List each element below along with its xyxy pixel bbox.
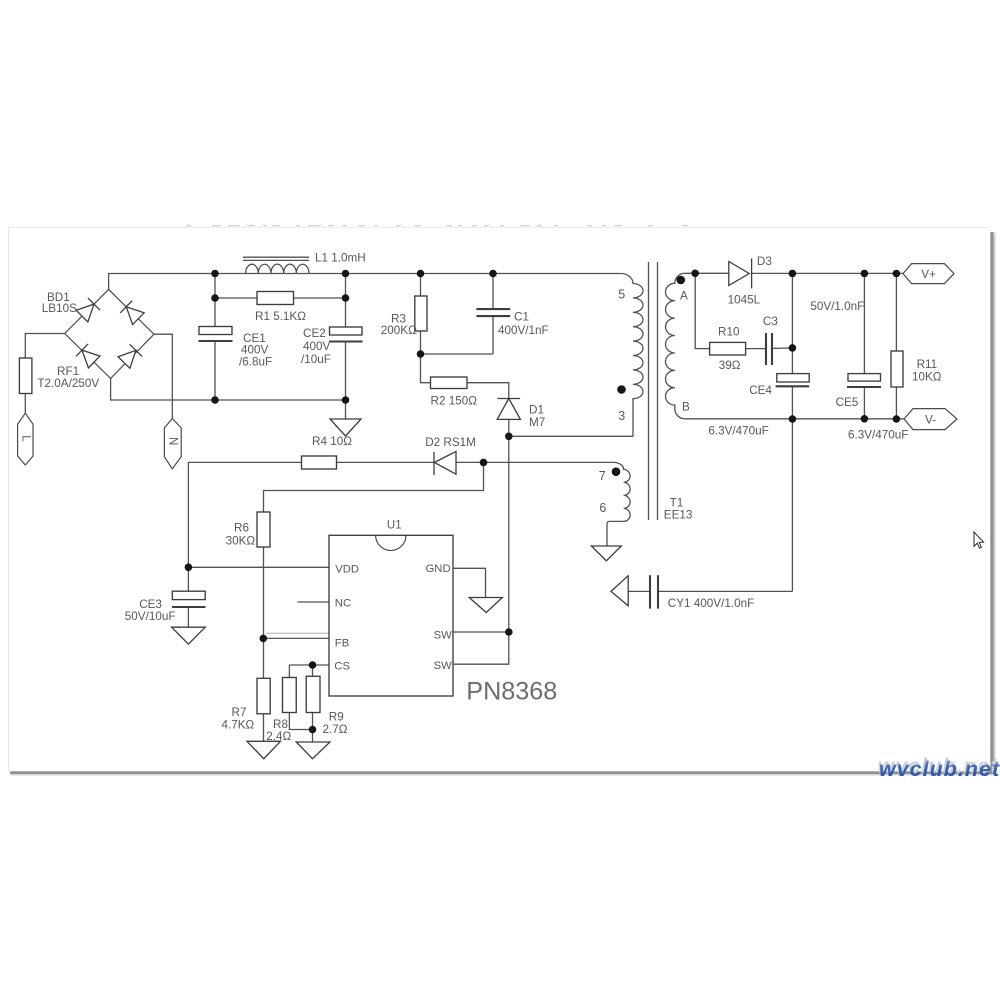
svg-text:PN8368: PN8368 xyxy=(466,678,557,706)
svg-text:EE13: EE13 xyxy=(664,509,693,522)
svg-text:1045L: 1045L xyxy=(728,293,761,306)
svg-text:R6: R6 xyxy=(234,521,249,534)
svg-text:200KΩ: 200KΩ xyxy=(381,324,417,337)
svg-text:D3: D3 xyxy=(757,255,772,268)
svg-text:wvclub.net: wvclub.net xyxy=(879,757,1000,781)
svg-text:L1 1.0mH: L1 1.0mH xyxy=(315,252,366,265)
svg-text:2.7Ω: 2.7Ω xyxy=(323,723,348,736)
svg-text:V+: V+ xyxy=(921,268,936,281)
svg-text:R9: R9 xyxy=(329,711,344,724)
svg-text:U1: U1 xyxy=(387,519,402,531)
svg-text:T2.0A/250V: T2.0A/250V xyxy=(37,377,99,390)
svg-text:D2 RS1M: D2 RS1M xyxy=(425,436,476,449)
svg-text:10KΩ: 10KΩ xyxy=(912,371,942,384)
svg-text:6.3V/470uF: 6.3V/470uF xyxy=(708,424,768,437)
svg-text:R2 150Ω: R2 150Ω xyxy=(431,395,478,408)
svg-text:R11: R11 xyxy=(917,358,938,371)
svg-text:M7: M7 xyxy=(529,416,545,429)
svg-text:400V: 400V xyxy=(303,340,331,353)
svg-text:V-: V- xyxy=(925,414,936,427)
svg-text:/6.8uF: /6.8uF xyxy=(239,355,272,368)
svg-text:6.3V/470uF: 6.3V/470uF xyxy=(848,428,908,441)
svg-text:50V/1.0nF: 50V/1.0nF xyxy=(810,300,864,313)
svg-text:CE4: CE4 xyxy=(749,384,772,397)
svg-text:/10uF: /10uF xyxy=(301,353,331,366)
svg-text:CE2: CE2 xyxy=(303,327,326,340)
svg-text:VDD: VDD xyxy=(335,563,359,575)
svg-text:5: 5 xyxy=(618,288,625,302)
svg-text:6: 6 xyxy=(599,501,606,515)
svg-text:FB: FB xyxy=(335,637,349,649)
svg-text:CY1 400V/1.0nF: CY1 400V/1.0nF xyxy=(668,597,754,610)
svg-text:400V/1nF: 400V/1nF xyxy=(498,324,549,337)
svg-text:39Ω: 39Ω xyxy=(719,359,741,372)
svg-text:2.4Ω: 2.4Ω xyxy=(266,730,291,743)
svg-text:SW: SW xyxy=(434,660,453,672)
svg-text:4.7KΩ: 4.7KΩ xyxy=(222,719,255,732)
svg-text:3: 3 xyxy=(618,409,625,423)
svg-text:R10: R10 xyxy=(718,325,740,338)
svg-text:R4 10Ω: R4 10Ω xyxy=(312,435,352,448)
svg-text:T1: T1 xyxy=(670,496,684,509)
svg-text:CE5: CE5 xyxy=(836,396,859,409)
svg-text:R1 5.1KΩ: R1 5.1KΩ xyxy=(255,310,306,323)
svg-text:R7: R7 xyxy=(232,706,247,719)
svg-text:50V/10uF: 50V/10uF xyxy=(125,610,176,623)
svg-text:C1: C1 xyxy=(514,311,529,324)
svg-text:C3: C3 xyxy=(763,315,778,328)
svg-text:GND: GND xyxy=(426,563,451,575)
svg-text:D1: D1 xyxy=(529,404,544,417)
svg-text:30KΩ: 30KΩ xyxy=(226,535,256,548)
svg-text:LB10S: LB10S xyxy=(42,302,77,315)
svg-text:N: N xyxy=(166,437,178,445)
svg-text:SW: SW xyxy=(434,629,453,641)
svg-text:A: A xyxy=(680,289,688,302)
svg-text:CS: CS xyxy=(334,660,350,672)
svg-text:B: B xyxy=(682,400,690,413)
svg-text:L: L xyxy=(19,435,31,442)
svg-text:NC: NC xyxy=(335,598,351,610)
svg-text:7: 7 xyxy=(599,469,606,483)
